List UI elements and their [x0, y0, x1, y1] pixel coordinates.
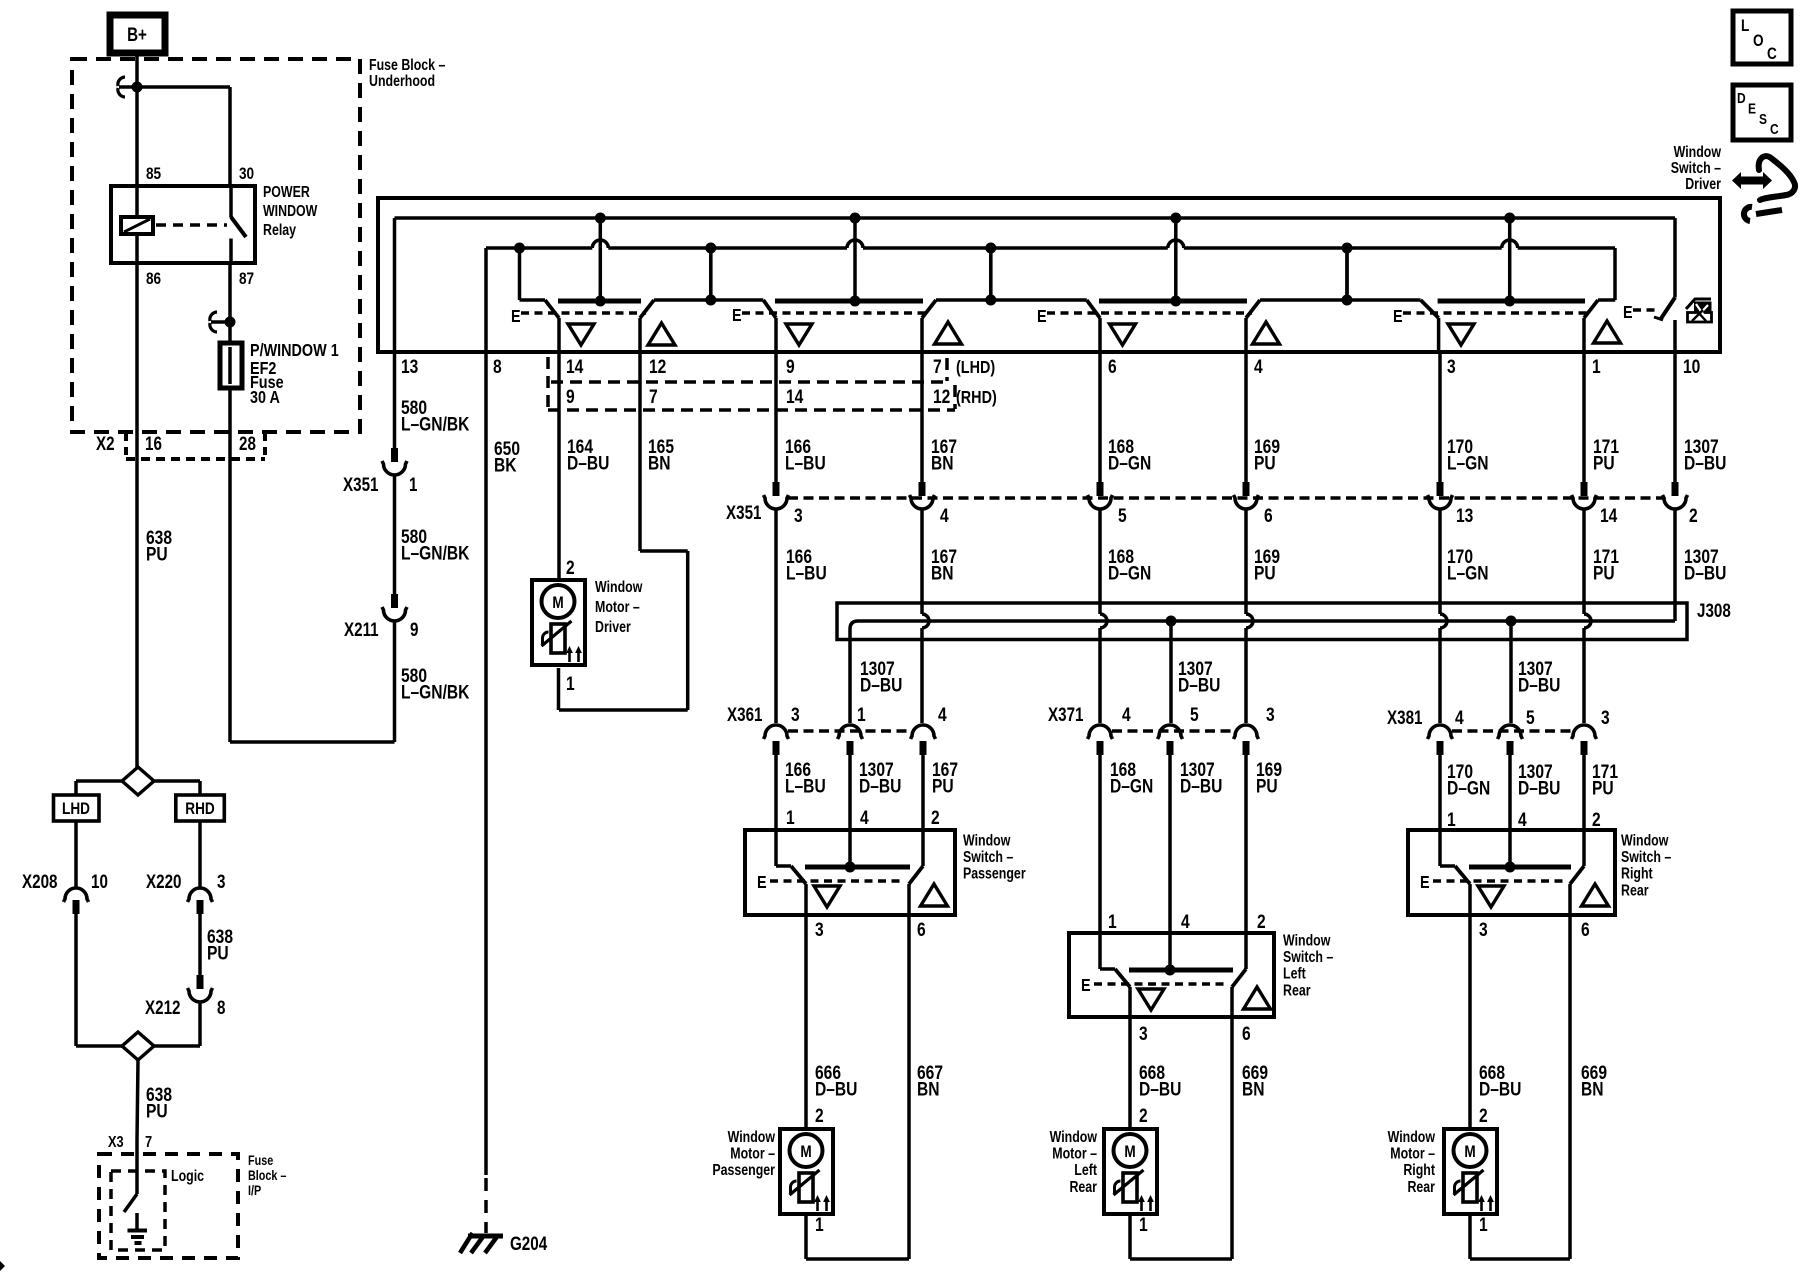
- connector X2 strip: [126, 432, 265, 459]
- svg-text:LHD: LHD: [62, 800, 90, 819]
- wire 169 X351 to X371 crossing J308: [1246, 509, 1253, 723]
- window lock icon: [1686, 299, 1712, 322]
- relay dashed link: [156, 223, 227, 227]
- junction dot B+ feed: [132, 82, 143, 93]
- lockout switch: [1654, 298, 1675, 353]
- connector row X351 lower: [764, 482, 1688, 509]
- svg-text:8: 8: [217, 996, 226, 1018]
- connector X208 pin 10: [22, 870, 108, 914]
- wire 650 BK dashed to ground: [484, 1178, 488, 1233]
- window motor right rear: [1444, 1129, 1497, 1214]
- svg-text:D–BU: D–BU: [1180, 775, 1222, 797]
- left rear pins 3 6 labels: [1139, 1022, 1251, 1044]
- svg-text:Motor –: Motor –: [595, 598, 640, 616]
- wire diamond to RHD: [154, 781, 200, 795]
- svg-text:Switch –: Switch –: [1621, 848, 1671, 866]
- relay POWER WINDOW box: [111, 186, 255, 263]
- svg-text:X220: X220: [146, 870, 181, 892]
- svg-text:12: 12: [933, 385, 951, 407]
- svg-text:3: 3: [1601, 706, 1610, 728]
- label 171 PU (3): [1592, 760, 1618, 799]
- dot bus3 x711: [705, 243, 716, 254]
- svg-text:4: 4: [1518, 808, 1527, 830]
- svg-text:BK: BK: [494, 454, 517, 476]
- unit2 up triangle: [935, 322, 962, 344]
- svg-text:O: O: [1753, 32, 1764, 51]
- right rear switch pin labels: [1447, 808, 1601, 830]
- relay switch blade: [231, 186, 246, 263]
- svg-text:Window: Window: [963, 831, 1010, 849]
- svg-text:Right: Right: [1403, 1161, 1435, 1179]
- svg-text:S: S: [1759, 111, 1767, 128]
- svg-text:M: M: [552, 594, 563, 613]
- J308 inner bus line: [850, 603, 1675, 640]
- svg-text:7: 7: [145, 1134, 152, 1152]
- tie vertical x991: [989, 248, 993, 300]
- window switch driver box: [378, 198, 1720, 352]
- svg-text:PU: PU: [1592, 777, 1614, 799]
- pin4 wire 169 to X351: [1244, 352, 1248, 482]
- svg-text:2: 2: [566, 556, 575, 578]
- wire 1307 J308 to X361: [850, 640, 902, 723]
- svg-text:Passenger: Passenger: [963, 864, 1026, 882]
- unit3 up triangle: [1253, 322, 1280, 344]
- label Window Motor - Passenger: [712, 1128, 775, 1179]
- svg-text:WINDOW: WINDOW: [263, 202, 318, 220]
- svg-text:13: 13: [401, 355, 419, 377]
- X351 lower pin numbers: [794, 504, 1698, 526]
- svg-text:E: E: [1393, 307, 1403, 327]
- svg-text:E: E: [1081, 976, 1091, 996]
- svg-text:D–BU: D–BU: [1684, 562, 1726, 584]
- label 650 BK: [494, 437, 520, 476]
- fuse block underhood dashed box: [72, 59, 360, 432]
- label Window Switch - Driver: [1671, 143, 1722, 193]
- svg-text:1: 1: [1108, 910, 1117, 932]
- wire 1307 J308 to X381: [1511, 621, 1560, 723]
- tie vertical x711: [709, 248, 713, 300]
- label POWER WINDOW Relay: [263, 183, 318, 239]
- window motor left rear: [1104, 1129, 1157, 1214]
- pin9 wire 166 to X351: [774, 352, 778, 482]
- tie vertical x1347: [1345, 248, 1349, 300]
- svg-text:4: 4: [1122, 703, 1131, 725]
- label 2 left rear motor: [1139, 1104, 1148, 1126]
- svg-text:L–GN/BK: L–GN/BK: [401, 681, 470, 703]
- svg-text:RHD: RHD: [185, 800, 214, 819]
- label 168 D-GN (2): [1108, 545, 1151, 584]
- svg-text:Driver: Driver: [595, 618, 631, 636]
- bus2 right corner to lockout: [1673, 218, 1677, 298]
- svg-text:PU: PU: [1593, 562, 1615, 584]
- svg-text:BN: BN: [1581, 1078, 1604, 1100]
- unit3 down triangle: [1110, 324, 1136, 345]
- svg-text:J308: J308: [1697, 599, 1731, 621]
- svg-text:Fuse: Fuse: [248, 1153, 273, 1168]
- svg-text:1: 1: [409, 473, 418, 495]
- svg-text:3: 3: [1479, 918, 1488, 940]
- svg-text:L–BU: L–BU: [785, 452, 826, 474]
- label 171 PU (1): [1593, 435, 1619, 474]
- svg-text:16: 16: [145, 432, 162, 454]
- pin3 wire 170 to X351: [1438, 352, 1442, 482]
- svg-text:Rear: Rear: [1407, 1177, 1435, 1195]
- label 170 L-GN (1): [1447, 435, 1489, 474]
- pin labels row RHD: [566, 385, 997, 407]
- svg-text:14: 14: [1600, 504, 1618, 526]
- window motor driver: [532, 580, 585, 665]
- svg-text:E: E: [757, 873, 767, 893]
- svg-text:E: E: [511, 307, 521, 327]
- svg-text:14: 14: [786, 385, 804, 407]
- bus3 right corner: [1613, 248, 1617, 300]
- svg-text:BN: BN: [931, 452, 954, 474]
- wire 166 X351 to X361: [774, 509, 778, 723]
- svg-text:D–GN: D–GN: [1108, 452, 1151, 474]
- label 580 L-GN/BK (1): [401, 396, 470, 435]
- connector row X371: [1048, 703, 1275, 755]
- wire passenger motor return: [806, 1214, 909, 1259]
- relay coil: [121, 186, 153, 263]
- wire 666 D-BU: [806, 915, 857, 1129]
- connector X212 pin 8: [145, 975, 226, 1018]
- label 1307 D-BU (2): [1684, 545, 1726, 584]
- label Fuse Block - Underhood: [369, 56, 446, 90]
- wire B+ junction to relay pin 30: [137, 87, 230, 186]
- wire 638 PU X220 to X212: [200, 914, 233, 975]
- pin labels row LHD: [401, 355, 1701, 377]
- svg-text:Left: Left: [1283, 964, 1306, 982]
- unit2 E link: [732, 306, 928, 326]
- svg-text:Rear: Rear: [1621, 881, 1649, 899]
- B+ battery terminal: [110, 15, 165, 53]
- wire left rear motor return: [1130, 1214, 1232, 1259]
- svg-text:PU: PU: [1254, 452, 1276, 474]
- fuse block I/P dashed box: [99, 1154, 238, 1258]
- connector X211 pin 9: [344, 594, 418, 640]
- svg-text:4: 4: [938, 703, 947, 725]
- splice curl at B+ feed: [118, 77, 135, 97]
- window motor passenger: [780, 1129, 833, 1214]
- junction dots unit3-4: [1342, 243, 1353, 306]
- svg-text:87: 87: [239, 270, 254, 289]
- svg-text:I/P: I/P: [248, 1183, 261, 1198]
- svg-text:BN: BN: [917, 1078, 940, 1100]
- svg-text:13: 13: [1456, 504, 1474, 526]
- ground symbol in logic box: [128, 1213, 148, 1243]
- svg-text:9: 9: [566, 385, 575, 407]
- label 164 D-BU: [567, 435, 609, 474]
- svg-text:3: 3: [1447, 355, 1456, 377]
- unit1 up triangle: [648, 323, 675, 345]
- fuse P/WINDOW 1 EF2 30A: [220, 343, 242, 388]
- wire 1307 J308 to X371: [1171, 621, 1220, 723]
- label 167 BN (1): [931, 435, 957, 474]
- svg-text:Motor –: Motor –: [1390, 1144, 1435, 1162]
- logic switch blade: [124, 1194, 137, 1212]
- svg-text:M: M: [1464, 1143, 1475, 1162]
- svg-text:3: 3: [217, 870, 225, 892]
- svg-text:E: E: [1748, 100, 1756, 117]
- LHD box: [54, 795, 100, 821]
- svg-text:Window: Window: [1621, 831, 1668, 849]
- pin12 wire 165: [559, 352, 688, 710]
- lockout E link: [1623, 303, 1658, 323]
- svg-text:E: E: [1420, 873, 1430, 893]
- label P/WINDOW 1 EF2 Fuse 30 A: [250, 341, 339, 408]
- svg-text:(RHD): (RHD): [956, 388, 997, 408]
- svg-text:3: 3: [815, 918, 824, 940]
- svg-text:28: 28: [239, 432, 256, 454]
- LOC legend box: [1733, 11, 1791, 64]
- label X2 pin 28: [239, 432, 256, 454]
- svg-text:10: 10: [1683, 355, 1701, 377]
- page corner artifact: [0, 1261, 5, 1271]
- svg-text:PU: PU: [932, 775, 954, 797]
- label X2: [96, 432, 115, 454]
- svg-text:2: 2: [1479, 1104, 1488, 1126]
- svg-text:B+: B+: [127, 23, 147, 45]
- label 170 L-GN (2): [1447, 545, 1489, 584]
- label J308: [1697, 599, 1731, 621]
- svg-text:1: 1: [1139, 1213, 1148, 1235]
- pin7 wire 167 to X351: [920, 352, 924, 482]
- svg-text:1: 1: [1592, 355, 1601, 377]
- svg-text:85: 85: [146, 165, 162, 184]
- wire 668 D-BU right: [1470, 915, 1521, 1129]
- unit4 up triangle: [1594, 321, 1621, 343]
- svg-text:7: 7: [933, 355, 942, 377]
- wire X208 to diamond lower: [76, 914, 122, 1046]
- label Window Motor - Right Rear: [1388, 1128, 1436, 1195]
- svg-text:D–GN: D–GN: [1108, 562, 1151, 584]
- unit2 down triangle: [786, 324, 812, 345]
- label 166 L-BU (3): [785, 758, 826, 797]
- svg-text:X351: X351: [726, 501, 762, 523]
- label 1307 D-BU (1): [1684, 435, 1726, 474]
- svg-text:4: 4: [860, 806, 869, 828]
- J308 splice pack outer: [837, 603, 1687, 640]
- svg-text:X211: X211: [344, 618, 379, 640]
- svg-text:(LHD): (LHD): [956, 358, 995, 378]
- label 169 PU (1): [1254, 435, 1280, 474]
- svg-text:D–GN: D–GN: [1110, 775, 1153, 797]
- svg-text:10: 10: [91, 870, 108, 892]
- svg-text:L–GN: L–GN: [1447, 562, 1489, 584]
- svg-text:Rear: Rear: [1283, 981, 1311, 999]
- svg-text:C: C: [1767, 45, 1777, 64]
- svg-text:1: 1: [857, 703, 866, 725]
- label 166 L-BU (1): [785, 435, 826, 474]
- label 171 PU (2): [1593, 545, 1619, 584]
- svg-text:C: C: [1770, 121, 1779, 138]
- wire 171 X351 to X381 crossing J308: [1584, 509, 1591, 723]
- svg-text:L: L: [1741, 17, 1749, 36]
- label 1 right rear motor: [1479, 1213, 1488, 1235]
- bus wire bus2: [395, 216, 1676, 220]
- label 165 BN: [648, 435, 674, 474]
- svg-text:Motor –: Motor –: [1052, 1144, 1097, 1162]
- svg-text:BN: BN: [931, 562, 954, 584]
- logic dashed box: [111, 1171, 165, 1250]
- pin6 wire 168 to X351: [1098, 352, 1102, 482]
- svg-text:Driver: Driver: [1685, 175, 1721, 193]
- svg-text:D–BU: D–BU: [1178, 674, 1220, 696]
- wire 669 BN right: [1570, 915, 1607, 1259]
- svg-text:Logic: Logic: [171, 1167, 204, 1185]
- splice curl at fuse feed: [210, 312, 227, 332]
- svg-text:PU: PU: [1593, 452, 1615, 474]
- wire B+ to relay pin 85: [135, 53, 139, 186]
- svg-text:M: M: [800, 1143, 811, 1162]
- svg-text:PU: PU: [146, 1100, 168, 1122]
- wires X381 to right rear switch: [1440, 755, 1584, 830]
- svg-text:2: 2: [1592, 808, 1601, 830]
- J308 dot X381 branch: [1506, 616, 1517, 627]
- wire 667 BN: [909, 915, 943, 1259]
- svg-text:D–BU: D–BU: [1139, 1078, 1181, 1100]
- label 1 passenger motor: [815, 1213, 824, 1235]
- wire X3 into logic: [135, 1140, 139, 1194]
- svg-text:L–GN/BK: L–GN/BK: [401, 542, 470, 564]
- label G204: [510, 1232, 548, 1254]
- label 2 passenger motor: [815, 1104, 824, 1126]
- bus wire bus3 with hops: [0, 0, 1, 1]
- wire 167 X351 to X361 crossing J308: [922, 509, 929, 723]
- svg-text:D–BU: D–BU: [860, 674, 902, 696]
- svg-text:1: 1: [786, 806, 795, 828]
- svg-text:D–BU: D–BU: [815, 1078, 857, 1100]
- label 2 driver motor: [566, 556, 575, 578]
- svg-text:D: D: [1737, 90, 1746, 107]
- svg-text:D–BU: D–BU: [1518, 674, 1560, 696]
- label 166 L-BU (2): [786, 545, 827, 584]
- svg-text:9: 9: [410, 618, 418, 640]
- svg-text:Window: Window: [728, 1128, 775, 1146]
- svg-text:Motor –: Motor –: [730, 1144, 775, 1162]
- svg-text:6: 6: [1242, 1022, 1251, 1044]
- label 580 L-GN/BK (3): [401, 664, 470, 703]
- label 169 PU (2): [1254, 545, 1280, 584]
- window switch left rear: [1069, 931, 1333, 1017]
- wire driver motor return: [557, 668, 561, 710]
- wire 168 X351 to X371 crossing J308: [1100, 509, 1107, 723]
- wire 170 X351 to X381 crossing J308: [1440, 509, 1447, 723]
- passenger switch pin labels: [786, 806, 940, 828]
- svg-text:D–BU: D–BU: [1684, 452, 1726, 474]
- svg-text:Left: Left: [1074, 1161, 1097, 1179]
- svg-text:G204: G204: [510, 1232, 548, 1254]
- J308 dot X371 branch: [1166, 616, 1177, 627]
- svg-text:3: 3: [794, 504, 803, 526]
- connector row X381: [1387, 706, 1610, 755]
- svg-text:X3: X3: [108, 1134, 124, 1152]
- label 169 PU (3): [1256, 758, 1282, 797]
- LHD RHD dashed rows: [548, 357, 955, 410]
- label 1307 D-BU (5): [1180, 758, 1222, 797]
- wire 638 PU to X3: [137, 1060, 172, 1140]
- pin 13 wire below box: [394, 352, 396, 448]
- svg-text:8: 8: [493, 355, 502, 377]
- svg-text:Window: Window: [595, 578, 642, 596]
- svg-text:4: 4: [1181, 910, 1190, 932]
- svg-text:X381: X381: [1387, 706, 1423, 728]
- junction dots unit2-3: [985, 243, 996, 306]
- wire RHD down: [198, 821, 202, 887]
- svg-text:PU: PU: [1256, 775, 1278, 797]
- svg-text:E: E: [1037, 307, 1047, 327]
- svg-text:L–GN: L–GN: [1447, 452, 1489, 474]
- wires X361 to passenger switch: [776, 755, 923, 830]
- wire X212 to diamond lower: [154, 1002, 200, 1046]
- bus3 horizontal: [486, 240, 1615, 248]
- RHD box: [176, 795, 225, 821]
- label 30: [239, 165, 254, 184]
- wire LHD down: [74, 821, 78, 887]
- svg-text:30: 30: [239, 165, 254, 184]
- svg-text:7: 7: [649, 385, 658, 407]
- connector X351 pin 1: [343, 448, 418, 495]
- wire 580 between X351 and X211: [393, 475, 397, 594]
- svg-text:6: 6: [1108, 355, 1117, 377]
- svg-text:Rear: Rear: [1069, 1177, 1097, 1195]
- label 85: [146, 165, 162, 184]
- svg-text:1: 1: [566, 672, 575, 694]
- label 1 driver motor: [566, 672, 575, 694]
- left rear switch pin labels: [1108, 910, 1266, 932]
- unit4 down triangle: [1448, 324, 1474, 345]
- label 168 D-GN (1): [1108, 435, 1151, 474]
- svg-text:M: M: [1124, 1143, 1135, 1162]
- splice diamond lower: [122, 1032, 154, 1060]
- svg-text:1: 1: [815, 1213, 824, 1235]
- svg-text:PU: PU: [146, 543, 168, 565]
- label Fuse Block - I/P: [248, 1153, 287, 1198]
- label 87: [239, 270, 254, 289]
- svg-text:D–BU: D–BU: [859, 775, 901, 797]
- svg-text:D–BU: D–BU: [1518, 777, 1560, 799]
- svg-text:5: 5: [1118, 504, 1127, 526]
- label 168 D-GN (3): [1110, 758, 1153, 797]
- pin14 wire to motor: [557, 352, 561, 580]
- wire 638 PU to diamond: [146, 526, 172, 565]
- hand cursor icon: [1732, 156, 1795, 221]
- svg-text:D–BU: D–BU: [1479, 1078, 1521, 1100]
- svg-text:POWER: POWER: [263, 183, 310, 201]
- label 167 PU: [932, 758, 958, 797]
- label 1 left rear motor: [1139, 1213, 1148, 1235]
- wire relay 86 down: [135, 263, 139, 767]
- driver switch unit 3 (left rear): [991, 213, 1347, 353]
- label X2 pin 16: [145, 432, 162, 454]
- svg-text:6: 6: [1264, 504, 1273, 526]
- svg-text:3: 3: [1266, 703, 1275, 725]
- label 580 L-GN/BK (2): [401, 525, 470, 564]
- svg-text:L–BU: L–BU: [786, 562, 827, 584]
- pin1 wire 171 to X351: [1582, 352, 1586, 482]
- unit3 E link: [1037, 307, 1252, 327]
- wire 668 D-BU left: [1130, 1017, 1181, 1129]
- svg-text:4: 4: [940, 504, 949, 526]
- svg-text:Switch –: Switch –: [1283, 948, 1333, 966]
- svg-text:Switch –: Switch –: [963, 848, 1013, 866]
- svg-text:4: 4: [1254, 355, 1263, 377]
- svg-text:L–GN/BK: L–GN/BK: [401, 413, 470, 435]
- connector X220 pin 3: [146, 870, 225, 914]
- svg-text:Relay: Relay: [263, 221, 296, 239]
- svg-text:Right: Right: [1621, 864, 1653, 882]
- svg-text:X208: X208: [22, 870, 58, 892]
